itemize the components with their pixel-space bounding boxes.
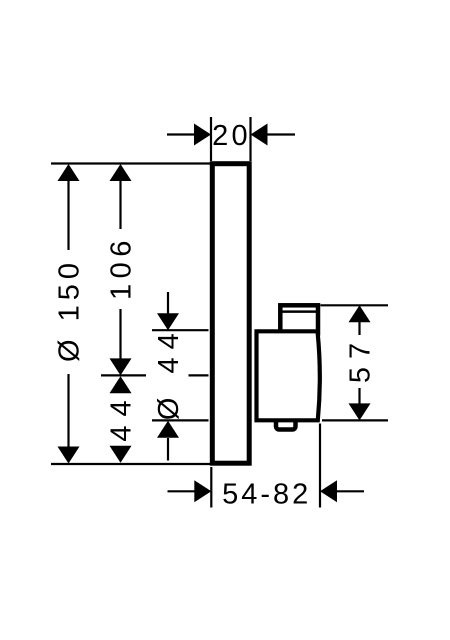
shared top extension line [51,162,210,164]
dimension 54-82 : right extension line [319,424,321,508]
dimension diameter 150 : lower line [67,374,69,447]
dimension 20 : left tail line [167,133,195,135]
dimension 57 : top arrowhead [349,305,371,322]
handle cap (top small rectangle) [280,305,318,333]
dimension diameter 44 : bottom lead line [167,438,169,461]
svg-text:54-82: 54-82 [222,479,311,511]
dimension diameter 44 : centre mark [189,374,209,376]
dimension diameter 150 : bottom arrowhead [58,447,80,464]
plate (escutcheon side view) [212,164,249,464]
handle cap ridge line [283,310,317,313]
dimension 44 left column : top arrowhead [110,376,132,393]
dimension 20 : extension line left [210,117,212,161]
svg-text:57: 57 [345,335,377,383]
dimension diameter 44 : bottom tick [152,419,209,421]
dimension diameter 44 : top arrowhead [157,313,179,330]
dimension diameter 150 : top arrowhead [58,164,80,181]
dimension 20 : right tail line [268,133,296,135]
svg-text:106: 106 [106,235,138,300]
dimension 57 : bottom extension line [322,419,388,421]
dimension 106 : lower line [119,309,121,359]
dimension 57 : lower line [358,388,360,404]
dimension diameter 44 : bottom arrowhead [157,421,179,438]
dimension 57 : upper line [358,321,360,335]
dimension 57 : top extension line [321,304,389,306]
dimension 54-82 : right arrowhead [320,480,337,502]
dimension 54-82 : right tail line [337,490,364,492]
dimension 20 : right arrowhead [251,124,268,146]
dimension 54-82 : left arrowhead [194,480,211,502]
dimension 54-82 : left tail line [168,490,196,492]
dimension 54-82 : left extension line [210,467,212,508]
svg-text:Ø 44: Ø 44 [153,325,185,420]
dimension 106 : top arrowhead [110,164,132,181]
dimension 106 : bottom tick [101,374,146,376]
svg-text:44: 44 [106,391,138,441]
dimension diameter 150 : upper line [67,180,69,250]
dimension 106 : upper line [119,180,121,229]
svg-text:20: 20 [212,120,251,152]
dimension 20 : extension line right [249,117,251,161]
dimension 106 : bottom arrowhead [110,358,132,375]
dimension diameter 44 : top lead line [167,292,169,314]
dimension diameter 44 : top tick [152,329,209,331]
dimension 57 : bottom arrowhead [349,403,371,420]
dimension 20 : left arrowhead [194,124,211,146]
shared bottom extension line [51,463,213,465]
svg-text:Ø 150: Ø 150 [54,258,86,362]
dimension 44 left column : bottom arrowhead [110,446,132,463]
handle bottom tab [276,419,296,430]
handle main body [257,331,320,420]
